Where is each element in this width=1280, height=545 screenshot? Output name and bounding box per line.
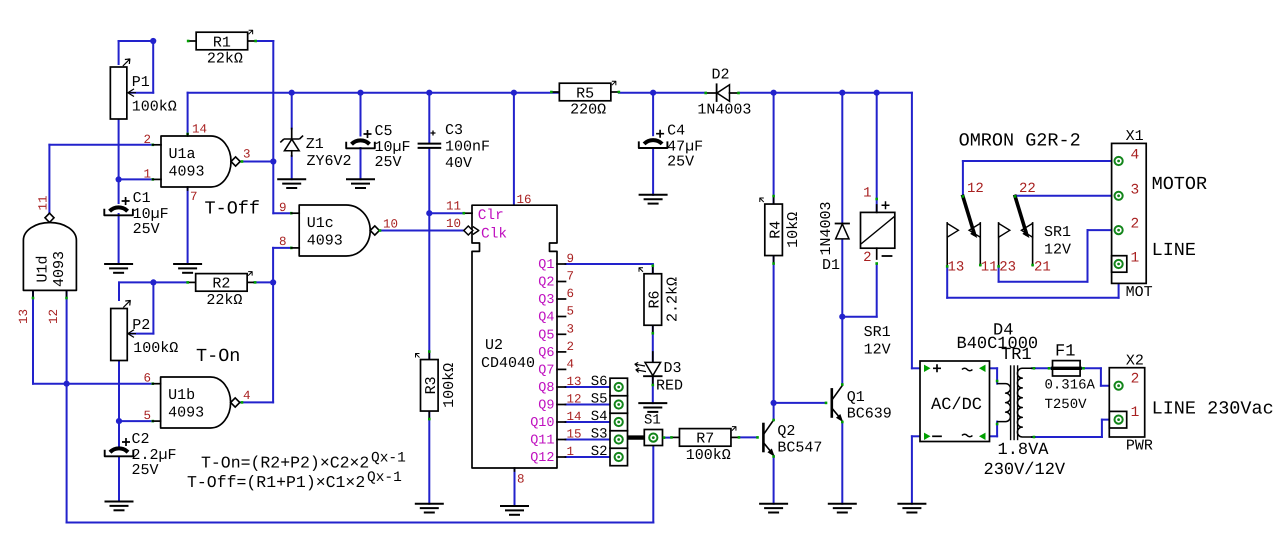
svg-text:Q2: Q2 <box>777 423 795 440</box>
wire P2 wiper arrowhead <box>128 330 136 338</box>
svg-text:5: 5 <box>144 409 152 423</box>
wire P1 wiper arrowhead <box>128 89 136 97</box>
svg-text:U1c: U1c <box>307 215 334 232</box>
svg-text:D1: D1 <box>822 257 840 274</box>
svg-text:P1: P1 <box>132 74 150 91</box>
svg-text:22kΩ: 22kΩ <box>207 51 243 68</box>
wire relay pin13 to X1-1 <box>946 266 948 297</box>
wire R3 bottom to ground <box>428 411 430 504</box>
svg-text:21: 21 <box>1034 260 1051 276</box>
wire C1 bottom to ground <box>118 214 120 264</box>
nand gate U1a <box>161 136 231 187</box>
node U1d pins joined <box>64 381 70 387</box>
wire U1b pin6 net <box>67 383 153 385</box>
svg-text:25V: 25V <box>667 154 694 171</box>
VCC rail left <box>188 92 560 94</box>
U2 pin Q6 <box>557 351 566 353</box>
potentiometer P1 <box>110 67 127 119</box>
svg-text:LINE: LINE <box>1152 240 1196 261</box>
svg-text:1N4003: 1N4003 <box>697 102 751 119</box>
svg-text:3: 3 <box>1131 182 1140 198</box>
U2 pin Q11 <box>557 439 566 441</box>
svg-text:Q3: Q3 <box>538 293 554 308</box>
X1 pad 3 <box>1115 192 1123 200</box>
node D1 on rail <box>839 90 845 96</box>
wire D1 top <box>841 93 843 223</box>
X1 pad 1 with box <box>1112 256 1127 273</box>
U1b input stubs <box>153 383 161 385</box>
svg-text:100nF: 100nF <box>445 139 490 156</box>
svg-text:Q10: Q10 <box>530 416 554 431</box>
resistor R2 <box>188 281 196 283</box>
wire S1 bottom to rail <box>652 446 654 523</box>
resistor R1 <box>188 40 196 42</box>
svg-text:8: 8 <box>279 235 287 249</box>
ground C4 <box>640 194 667 196</box>
relay contact pole 21 <box>1032 223 1034 266</box>
wire relay pin23 to X1-2 <box>998 266 1000 281</box>
capacitor C3 <box>419 143 441 145</box>
svg-text:10: 10 <box>383 218 398 232</box>
wire S1 to R7 <box>663 437 672 439</box>
svg-text:C4: C4 <box>667 123 685 140</box>
svg-text:R6: R6 <box>647 290 664 308</box>
svg-text:12: 12 <box>47 309 61 324</box>
node R2/P2/wiper junction <box>150 279 156 285</box>
svg-text:D2: D2 <box>712 67 730 84</box>
svg-text:R4: R4 <box>767 221 784 239</box>
svg-text:C5: C5 <box>375 123 393 140</box>
svg-text:13: 13 <box>17 309 31 324</box>
svg-text:100kΩ: 100kΩ <box>132 99 177 116</box>
svg-text:10: 10 <box>446 217 461 231</box>
svg-text:U1d: U1d <box>35 255 52 282</box>
svg-text:P2: P2 <box>132 317 150 334</box>
U2 pin Q3 <box>557 298 566 300</box>
ground C5 <box>347 178 374 180</box>
wire Q11 to S3 <box>566 439 615 441</box>
U1a input stubs <box>153 144 161 146</box>
wire Q10 to S4 <box>566 421 615 423</box>
svg-text:16: 16 <box>517 193 532 207</box>
svg-text:T-Off=(R1+P1)×C1×2: T-Off=(R1+P1)×C1×2 <box>187 473 365 492</box>
wire SR1 pin1 <box>876 93 878 213</box>
node SR1 on rail <box>874 90 880 96</box>
bridge rectifier D4 <box>920 361 990 442</box>
wire Z1 to ground <box>291 93 293 129</box>
svg-text:1: 1 <box>1131 405 1140 421</box>
svg-text:T-Off: T-Off <box>205 199 261 220</box>
capacitor C2 <box>110 448 128 452</box>
svg-text:Q7: Q7 <box>538 364 554 379</box>
svg-text:230V/12V: 230V/12V <box>984 461 1066 480</box>
svg-text:13: 13 <box>948 260 965 276</box>
svg-text:Q11: Q11 <box>530 434 554 449</box>
svg-text:25V: 25V <box>133 221 160 238</box>
svg-text:0.316A: 0.316A <box>1045 378 1096 394</box>
wire U1a output <box>241 161 274 163</box>
wire P2 wiper <box>130 333 153 335</box>
wire U1d pin12 to bottom rail <box>66 291 68 523</box>
svg-text:R1: R1 <box>213 34 231 51</box>
svg-text:100kΩ: 100kΩ <box>133 340 178 357</box>
capacitor C4 <box>644 140 662 144</box>
node Clr junction <box>426 210 432 216</box>
svg-text:Q6: Q6 <box>538 346 554 361</box>
ground Q2 <box>760 503 787 505</box>
svg-text:S5: S5 <box>591 392 608 408</box>
nand gate U1d rotated <box>23 223 76 291</box>
svg-text:1: 1 <box>567 445 575 459</box>
svg-text:7: 7 <box>567 270 575 284</box>
svg-text:AC/DC: AC/DC <box>931 396 982 415</box>
svg-text:2: 2 <box>1131 372 1140 388</box>
svg-text:ZY6V2: ZY6V2 <box>307 153 352 170</box>
VCC rail after D2 <box>739 92 912 94</box>
svg-text:9: 9 <box>279 201 287 215</box>
node C4 on rail <box>650 90 656 96</box>
svg-text:22kΩ: 22kΩ <box>206 292 242 309</box>
wire R4 top <box>773 93 775 205</box>
svg-text:4093: 4093 <box>307 233 343 250</box>
diode D1 <box>836 223 849 225</box>
header pin S6 <box>615 383 623 391</box>
header pin S4 <box>615 418 623 426</box>
svg-text:4: 4 <box>1131 148 1140 164</box>
X1 pad 4 <box>1115 157 1123 165</box>
wire U1a pin7 to ground <box>187 188 189 264</box>
ground C2 <box>106 501 133 503</box>
U2 pin Q10 <box>557 421 566 423</box>
X2 pad 2 <box>1115 382 1123 390</box>
svg-text:BC639: BC639 <box>847 406 892 423</box>
wire U1b pin5 <box>119 420 153 422</box>
wire U1c output to Clk <box>379 230 464 232</box>
svg-text:Clr: Clr <box>478 208 504 224</box>
wire R4 bottom to Q-junction <box>773 255 775 403</box>
wire Clr to U2 <box>429 212 464 214</box>
resistor R6 <box>652 266 654 274</box>
connector X2 <box>1109 368 1144 437</box>
svg-text:13: 13 <box>567 375 582 389</box>
node Z1 on rail <box>289 90 295 96</box>
svg-text:S4: S4 <box>591 409 608 425</box>
wire R1 right to U1a out column <box>256 40 273 42</box>
svg-text:12V: 12V <box>1044 242 1071 259</box>
switch pad S1 <box>644 430 662 446</box>
svg-text:CD4040: CD4040 <box>481 355 535 372</box>
wire U2 pin16 <box>513 93 515 206</box>
svg-text:100kΩ: 100kΩ <box>441 363 458 408</box>
svg-text:2: 2 <box>1131 217 1140 233</box>
ground Z1 <box>278 178 305 180</box>
node C5 on rail <box>357 90 363 96</box>
svg-text:Q9: Q9 <box>538 399 554 414</box>
svg-text:4: 4 <box>243 389 251 403</box>
wire D1 bottom <box>841 239 843 384</box>
wire R2 left to P2 top <box>153 281 188 283</box>
svg-text:3: 3 <box>567 322 575 336</box>
svg-text:9: 9 <box>567 252 575 266</box>
U2 pin Q8 <box>557 386 566 388</box>
relay coil SR1 <box>861 212 895 248</box>
svg-text:T-On: T-On <box>196 346 240 367</box>
svg-text:25V: 25V <box>375 154 402 171</box>
svg-text:Q2: Q2 <box>538 276 554 291</box>
svg-text:100kΩ: 100kΩ <box>686 447 731 464</box>
node D1 / SR1 pin2 <box>839 314 845 320</box>
svg-text:14: 14 <box>567 410 582 424</box>
svg-text:2: 2 <box>567 340 575 354</box>
wire TR1 secondary to F1 <box>1032 367 1053 369</box>
wire relay pin22 to X1-3 <box>1015 195 1119 197</box>
svg-text:5: 5 <box>567 305 575 319</box>
transistor Q2 BC547 <box>762 424 765 451</box>
potentiometer P2 <box>111 309 128 361</box>
transistor Q1 BC639 <box>830 389 833 416</box>
thick jumper S3 pad to S1 <box>628 435 646 439</box>
resistor R3 <box>428 352 430 360</box>
svg-text:Qx-1: Qx-1 <box>371 451 406 467</box>
svg-text:12: 12 <box>567 393 582 407</box>
svg-text:11: 11 <box>446 200 461 214</box>
svg-text:R5: R5 <box>576 85 594 102</box>
U2 pin Q1 <box>557 263 566 265</box>
U2 pin Q4 <box>557 316 566 318</box>
svg-text:R3: R3 <box>423 376 440 394</box>
svg-text:2: 2 <box>144 133 152 147</box>
ground D3 <box>639 402 666 404</box>
svg-text:S6: S6 <box>591 374 608 390</box>
svg-text:C2: C2 <box>132 431 150 448</box>
wire VCC to D4 plus <box>911 93 913 369</box>
wire SR1 pin2 jog <box>876 265 878 316</box>
wire R6 bottom to LED D3 <box>652 326 654 362</box>
relay armature 22 <box>1015 196 1026 233</box>
resistor R7 <box>671 436 679 438</box>
svg-text:23: 23 <box>999 260 1016 276</box>
wire Q1 emitter to ground <box>841 422 843 504</box>
svg-text:14: 14 <box>192 123 207 137</box>
svg-text:22: 22 <box>1019 181 1036 197</box>
svg-text:1: 1 <box>144 168 152 182</box>
wire U1d pin13 down <box>32 291 34 384</box>
svg-text:BC547: BC547 <box>777 440 822 457</box>
wire TR1 secondary bottom to X2-1 <box>1032 436 1102 438</box>
X2 pad 1 with box <box>1109 411 1126 428</box>
U2 pin Q9 <box>557 404 566 406</box>
bottom rail <box>67 522 654 524</box>
wire to Q1 base <box>774 402 826 404</box>
svg-text:220Ω: 220Ω <box>570 102 606 119</box>
wire P1 wiper to top <box>152 41 154 93</box>
svg-text:RED: RED <box>656 378 683 395</box>
svg-text:T250V: T250V <box>1045 397 1088 413</box>
svg-text:2.2kΩ: 2.2kΩ <box>664 277 681 322</box>
svg-text:C1: C1 <box>133 190 151 207</box>
svg-text:S2: S2 <box>591 444 608 460</box>
zener diode Z1 <box>291 129 293 140</box>
svg-text:7: 7 <box>190 190 198 204</box>
svg-text:25V: 25V <box>132 462 159 479</box>
U2 pin 8 label <box>514 468 516 471</box>
svg-text:S1: S1 <box>644 413 661 429</box>
svg-text:1: 1 <box>1131 251 1140 267</box>
node R2 right junction <box>270 279 276 285</box>
wire D4 ac top to TR1 <box>990 367 998 369</box>
ground C1 <box>105 263 132 265</box>
svg-text:D3: D3 <box>664 360 682 377</box>
led D3 <box>652 352 654 362</box>
svg-text:Z1: Z1 <box>306 136 324 153</box>
wire P1 bottom to C1 and U1a pin1 <box>118 119 120 203</box>
wire Q2 emitter to ground <box>773 456 775 504</box>
svg-text:X1: X1 <box>1126 128 1144 145</box>
svg-text:MOTOR: MOTOR <box>1152 174 1208 195</box>
svg-text:U1b: U1b <box>168 387 195 404</box>
svg-text:4: 4 <box>567 357 575 371</box>
ground D4 <box>898 503 925 505</box>
resistor R4 <box>773 196 775 204</box>
svg-text:12: 12 <box>967 181 984 197</box>
wire C4 top <box>652 93 654 136</box>
svg-text:Qx-1: Qx-1 <box>367 470 402 486</box>
svg-text:Q5: Q5 <box>538 329 554 344</box>
U1c input stubs <box>291 212 299 214</box>
relay contact pole 11 <box>979 223 981 266</box>
diode D2 <box>716 84 718 101</box>
U2 pin Q5 <box>557 333 566 335</box>
svg-text:8: 8 <box>517 473 525 487</box>
svg-text:U1a: U1a <box>169 146 196 163</box>
svg-text:LINE 230Vac: LINE 230Vac <box>1152 399 1274 420</box>
wire Q2 collector <box>773 403 775 420</box>
resistor R5 <box>551 91 559 93</box>
node P1/R1 junction <box>150 38 156 44</box>
node pin5/C2 junction <box>116 418 122 424</box>
wire C4 to ground <box>652 148 654 195</box>
svg-text:Q12: Q12 <box>530 451 554 466</box>
nand gate U1b <box>161 377 231 428</box>
wire D3 to ground <box>652 378 654 404</box>
ground R3 <box>416 503 443 505</box>
wire U1b output to U1c pin8 <box>241 401 274 403</box>
svg-text:6: 6 <box>144 372 152 386</box>
wire relay pin12 to X1-4 <box>962 161 964 196</box>
wire F1 to X2-2 <box>1080 367 1101 369</box>
node R4 on rail <box>771 90 777 96</box>
wire R2 right to U1b out column <box>254 281 273 283</box>
U2 pin Q2 <box>557 281 566 283</box>
svg-text:SR1: SR1 <box>864 324 891 341</box>
svg-text:Q1: Q1 <box>847 389 865 406</box>
node U2 pin16 on rail <box>511 90 517 96</box>
svg-text:1: 1 <box>863 186 871 202</box>
header pin S2 <box>615 453 623 461</box>
fuse F1 <box>1053 361 1081 376</box>
wire C3 column to R3 <box>428 93 430 143</box>
wire R7 to Q2 base <box>739 436 757 438</box>
header pin S3 <box>615 435 623 443</box>
wire P1 top to R1 junction <box>119 40 154 42</box>
ground Q1 <box>829 503 856 505</box>
wire Q9 to S5 <box>566 404 615 406</box>
relay armature 12 <box>963 196 974 233</box>
svg-text:11: 11 <box>981 260 998 276</box>
wire U1a pin2 net from U1d out <box>49 144 152 146</box>
wire D4 ac bottom to TR1 <box>990 435 998 437</box>
wire Q1 to R6 <box>566 263 653 265</box>
svg-text:10kΩ: 10kΩ <box>785 212 802 248</box>
svg-text:C3: C3 <box>445 122 463 139</box>
svg-text:TR1: TR1 <box>1001 346 1032 365</box>
svg-text:F1: F1 <box>1055 343 1075 362</box>
relay contact pole 23 <box>998 223 1000 267</box>
svg-text:X2: X2 <box>1126 353 1144 370</box>
svg-text:4093: 4093 <box>51 251 68 287</box>
wire Q8 to S6 <box>566 386 615 388</box>
U2 Clk pin with clock bubble <box>464 226 473 235</box>
wire C5 to rail and ground <box>360 93 362 136</box>
svg-text:MOT: MOT <box>1126 284 1153 301</box>
node Q2 collector / Q1 base <box>771 400 777 406</box>
node pin1/C1 junction <box>116 176 122 182</box>
capacitor C5 <box>352 140 370 144</box>
svg-text:11: 11 <box>37 195 51 210</box>
U2 pin Q12 <box>557 456 566 458</box>
svg-text:1.8VA: 1.8VA <box>998 441 1050 460</box>
wire P2 bottom to C2 and U1b pin5 <box>118 361 120 448</box>
header S6-S2 <box>610 378 628 466</box>
svg-text:6: 6 <box>567 287 575 301</box>
nand gate U1c <box>299 205 370 256</box>
svg-text:2: 2 <box>863 250 871 266</box>
wire U1d output up <box>48 213 50 222</box>
node U1a out / R1 <box>270 158 276 164</box>
header pin S5 <box>615 400 623 408</box>
U2 Clr pin <box>464 212 472 214</box>
capacitor C1 <box>110 207 128 211</box>
svg-text:15: 15 <box>567 428 582 442</box>
svg-text:4093: 4093 <box>169 164 205 181</box>
ground U2 pin8 <box>501 505 528 507</box>
svg-text:12V: 12V <box>864 342 891 359</box>
svg-text:4093: 4093 <box>168 405 204 422</box>
ic U2 CD4040 clock box <box>472 205 557 468</box>
svg-text:1N4003: 1N4003 <box>818 201 835 255</box>
svg-text:40V: 40V <box>445 155 472 172</box>
svg-text:S3: S3 <box>591 427 608 443</box>
wire C2 bottom to ground <box>118 458 120 502</box>
svg-text:PWR: PWR <box>1126 438 1153 455</box>
wire U2 pin8 to ground <box>514 468 516 506</box>
svg-text:Q1: Q1 <box>538 258 554 273</box>
svg-text:R7: R7 <box>696 431 714 448</box>
U2 pin Q7 <box>557 368 566 370</box>
svg-text:Q4: Q4 <box>538 311 554 326</box>
ground U1a pin7 <box>174 263 201 265</box>
wire U1a pin1 <box>119 178 153 180</box>
wire Q12 to S2 <box>566 456 615 458</box>
svg-text:SR1: SR1 <box>1044 224 1071 241</box>
wire to U1c pin9 <box>273 212 291 214</box>
svg-text:Q8: Q8 <box>538 381 554 396</box>
svg-text:Clk: Clk <box>481 227 507 243</box>
svg-text:OMRON G2R-2: OMRON G2R-2 <box>959 131 1081 152</box>
svg-text:3: 3 <box>243 148 251 162</box>
svg-text:U2: U2 <box>485 337 503 354</box>
X1 pad 2 <box>1115 226 1123 234</box>
